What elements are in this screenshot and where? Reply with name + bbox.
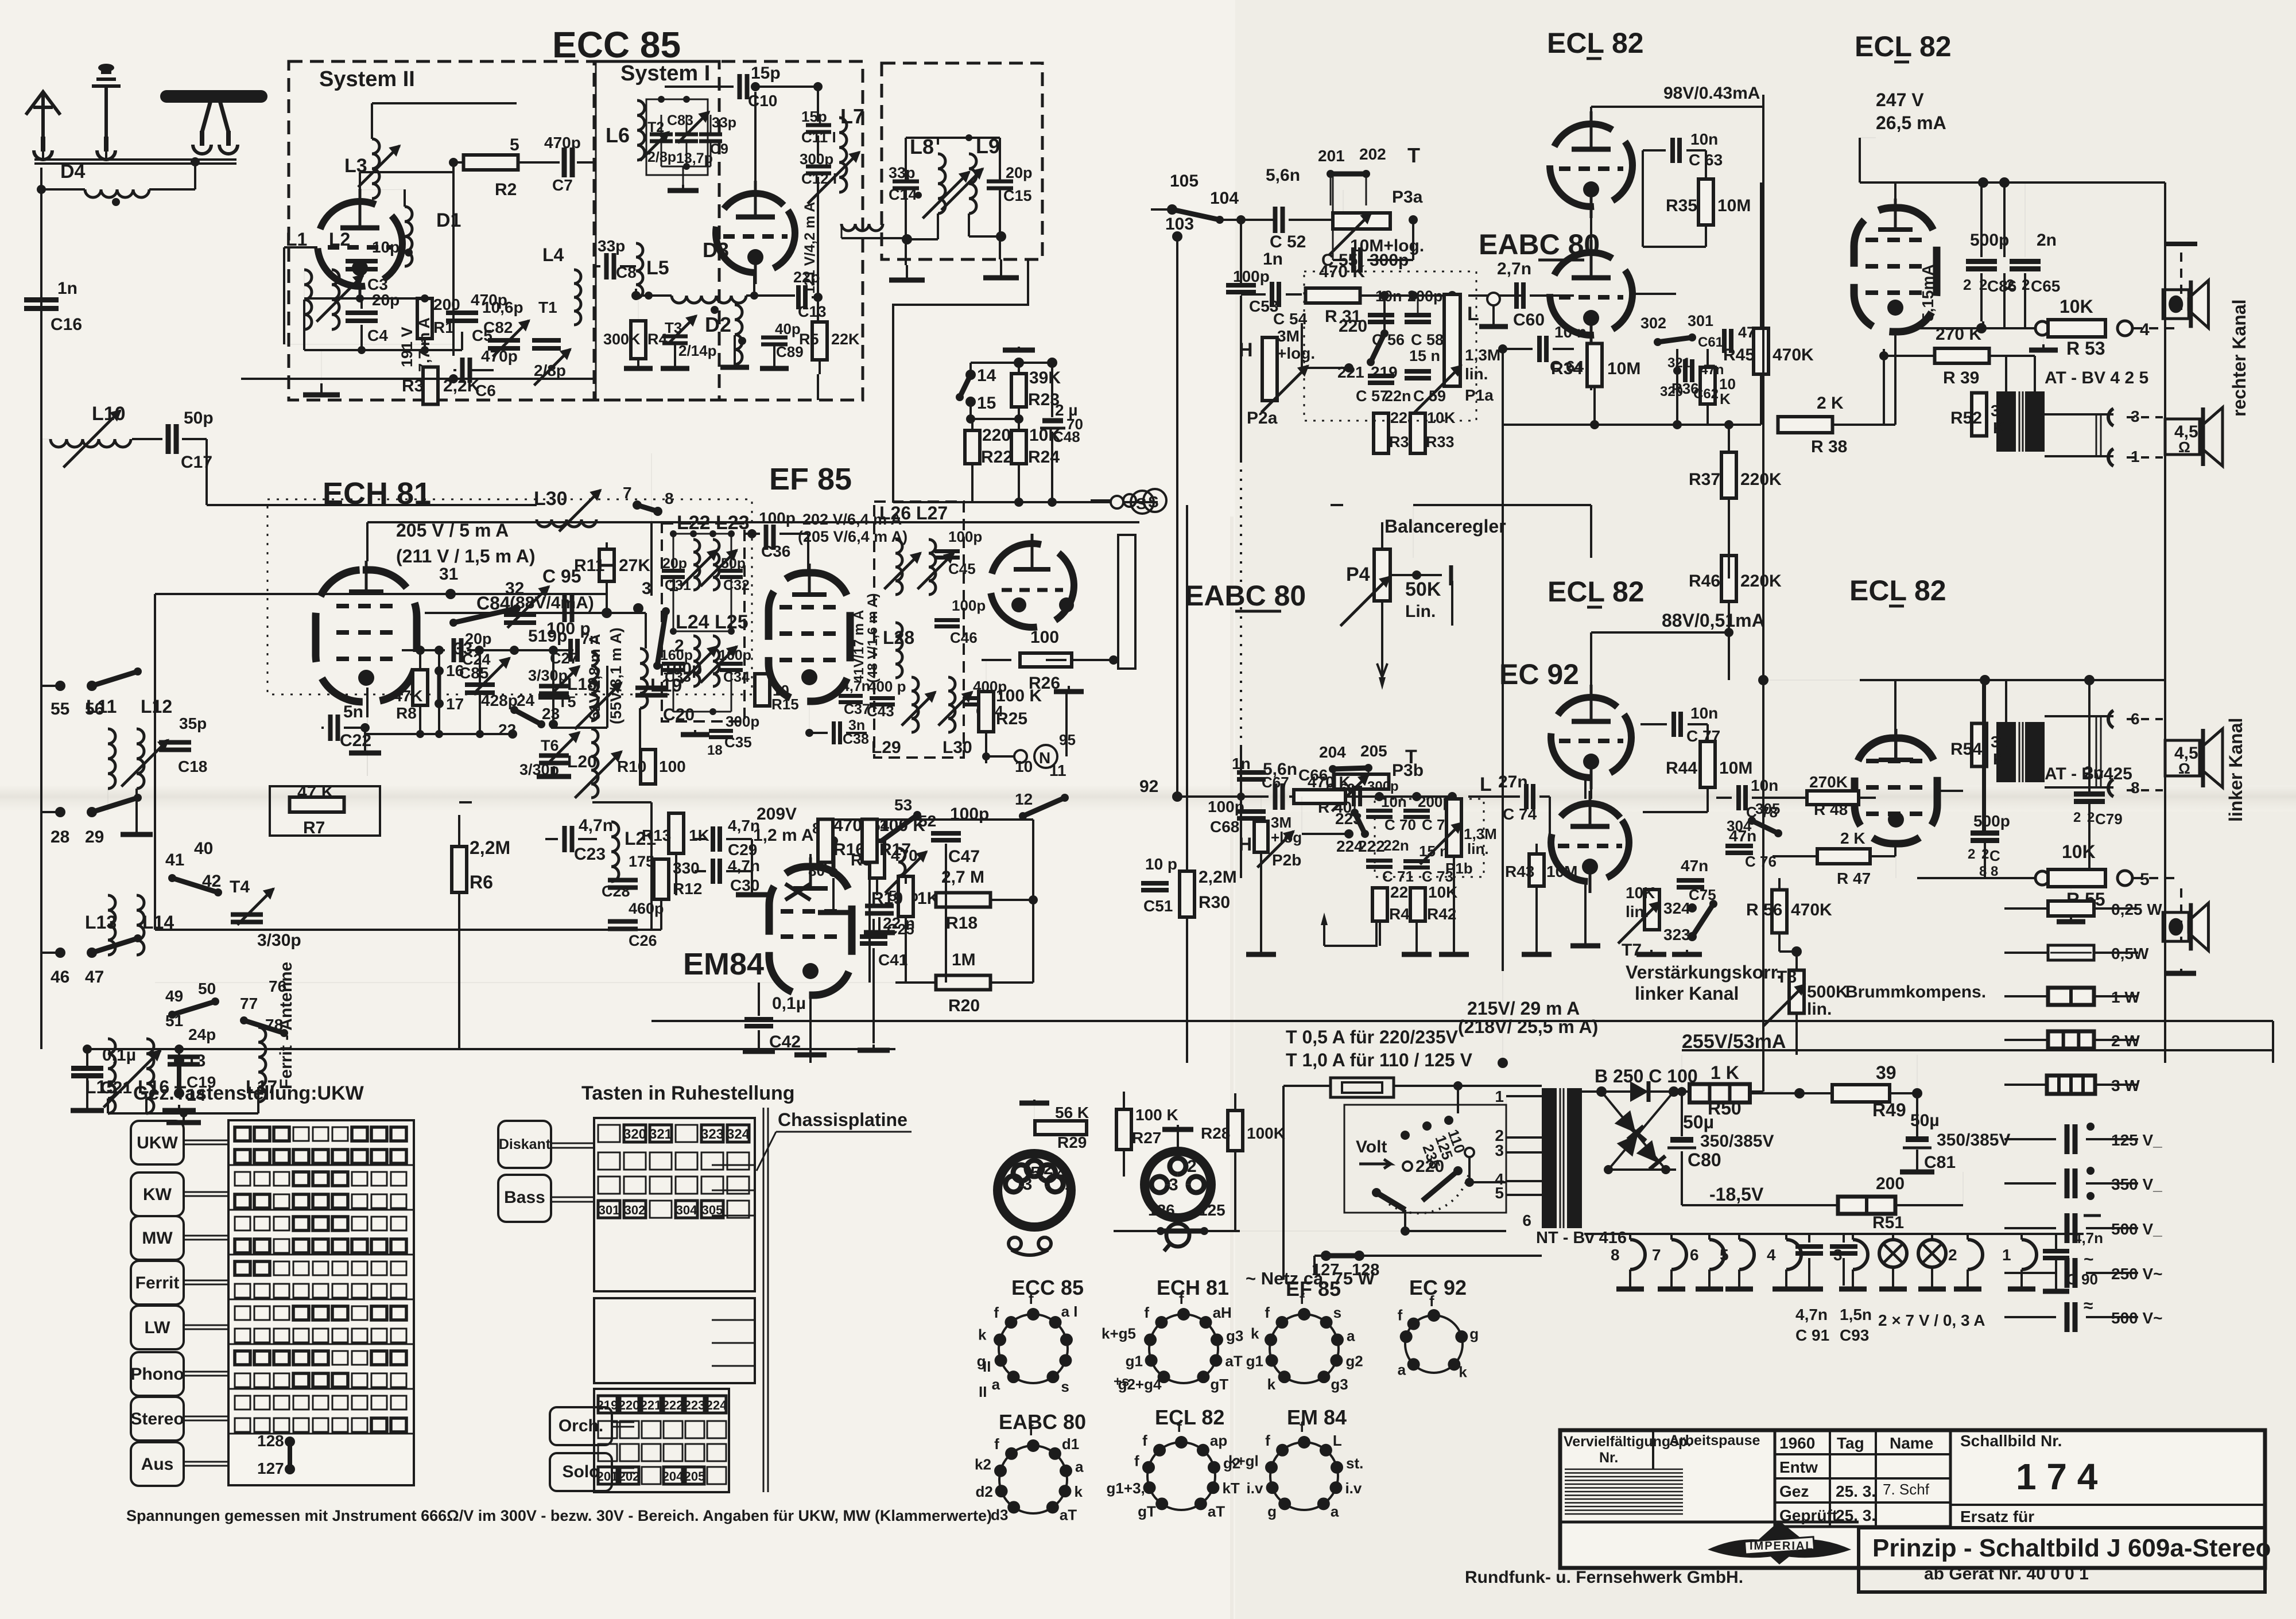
wire row y880 [205, 439, 208, 505]
svg-text:R49: R49 [1872, 1100, 1906, 1120]
coil L7 [839, 118, 847, 192]
svg-text:3M: 3M [1277, 327, 1300, 345]
svg-text:R51: R51 [1872, 1213, 1904, 1232]
capacitor C75 47n [1677, 878, 1704, 883]
wire button Aus [184, 1461, 228, 1463]
pot T7 10K lin [1645, 890, 1659, 930]
svg-text:Phono: Phono [130, 1365, 184, 1384]
button Stereo [131, 1397, 184, 1441]
svg-text:R22: R22 [981, 448, 1013, 467]
legend resistor 1W [2004, 995, 2048, 997]
svg-text:470p: 470p [481, 347, 518, 365]
resistor R7 47K [290, 797, 344, 812]
tape recorder symbol [1009, 1237, 1051, 1250]
capacitor C72 200p [1403, 809, 1430, 813]
dashed tweeter lower [2133, 877, 2175, 879]
dashed box System I [594, 61, 863, 400]
svg-text:D3: D3 [703, 238, 729, 262]
switch 13 14 [174, 1055, 184, 1066]
svg-text:(218V/ 25,5 m A): (218V/ 25,5 m A) [1458, 1016, 1598, 1037]
svg-text:50K: 50K [1405, 579, 1441, 600]
svg-text:C31: C31 [665, 577, 691, 593]
svg-text:k: k [1074, 1483, 1083, 1500]
svg-text:500 V~: 500 V~ [2111, 1309, 2163, 1327]
resistor R16 470K [818, 820, 833, 863]
resistor R32 22K [1374, 413, 1389, 453]
svg-text:300K: 300K [603, 331, 641, 348]
terminal circle [1487, 293, 1500, 305]
wire lattice right page [1187, 95, 2025, 1063]
svg-text:f: f [1134, 1453, 1139, 1470]
switch 46 47 [55, 948, 65, 958]
svg-text:C82: C82 [483, 319, 513, 336]
coil D1 [405, 207, 412, 266]
svg-text:KW: KW [143, 1185, 172, 1204]
coil L12 [137, 729, 144, 789]
wire L8 box drop [893, 259, 1028, 502]
capacitor C77 10n [1671, 712, 1676, 737]
capacitor C17 50p [166, 424, 171, 454]
svg-text:3/30p: 3/30p [528, 667, 568, 684]
wire 247V bus [1860, 181, 2165, 184]
svg-text:2: 2 [1948, 1246, 1957, 1264]
svg-text:EC 92: EC 92 [1409, 1276, 1467, 1299]
svg-text:R 47: R 47 [1837, 869, 1871, 887]
resistor R17 100K [862, 820, 877, 863]
svg-text:301: 301 [599, 1203, 620, 1217]
svg-text:aT: aT [1208, 1502, 1225, 1520]
svg-text:(205 V/6,4 m A): (205 V/6,4 m A) [798, 528, 907, 545]
wire button LW [184, 1325, 228, 1326]
capacitor C44 400p [963, 696, 988, 700]
svg-text:250 V~: 250 V~ [2111, 1265, 2163, 1283]
svg-text:C81: C81 [1924, 1153, 1956, 1172]
capacitor C24 20p [452, 638, 456, 662]
capacitor C7 [562, 147, 567, 177]
capacitor C69 300p [1352, 786, 1356, 806]
svg-text:a: a [1347, 1327, 1355, 1344]
svg-text:f: f [1177, 1418, 1182, 1435]
coil L5 [636, 243, 643, 298]
svg-text:C83: C83 [667, 112, 693, 129]
capacitor C14 33p [893, 180, 919, 184]
svg-text:7. Schf: 7. Schf [1883, 1481, 1930, 1498]
wire L11 bottom [107, 789, 108, 812]
svg-text:2,7 M: 2,7 M [941, 868, 984, 887]
wire upper mid horizontal y740 [1502, 424, 1504, 426]
svg-text:219: 219 [597, 1398, 618, 1412]
resistor R18 2.7M [936, 893, 991, 907]
legend resistor 0.25W [2004, 907, 2048, 910]
coil L29 [912, 677, 918, 732]
svg-text:222: 222 [1358, 837, 1385, 855]
svg-text:53: 53 [894, 796, 912, 814]
svg-text:P3a: P3a [1392, 188, 1423, 207]
coil L9 [969, 154, 976, 213]
capacitor C61 47n [1722, 329, 1727, 353]
wire button Ferrit [184, 1280, 228, 1282]
capacitor C11 15p [806, 123, 831, 127]
legend resistor 2W [2004, 1039, 2048, 1041]
wire button Phono [184, 1371, 228, 1373]
keyboard matrix frame [228, 1120, 414, 1485]
wire mid vertical rails [1762, 95, 1764, 1092]
svg-text:T: T [1407, 143, 1420, 167]
svg-text:aT: aT [1225, 1353, 1242, 1370]
svg-text:UKW: UKW [137, 1133, 178, 1152]
svg-text:L: L [1333, 1432, 1342, 1449]
svg-text:T 1,0 A für 110 / 125 V: T 1,0 A für 110 / 125 V [1286, 1050, 1473, 1070]
svg-text:20p: 20p [662, 556, 687, 572]
svg-text:Balanceregler: Balanceregler [1384, 516, 1506, 537]
capacitor C81 50u [1906, 1136, 1929, 1142]
button Orch [550, 1407, 612, 1445]
svg-text:2: 2 [1968, 847, 1975, 862]
resistor R31 470K [1306, 288, 1360, 303]
wire cathode net [359, 286, 361, 298]
svg-text:ECL 82: ECL 82 [1849, 574, 1946, 607]
svg-text:22n: 22n [1383, 837, 1409, 854]
legend capacitor 500V [2004, 1227, 2056, 1229]
capacitor C89 40p [761, 336, 788, 340]
svg-text:47n: 47n [1681, 857, 1708, 875]
svg-text:EM 84: EM 84 [1287, 1406, 1347, 1429]
svg-text:2,7n: 2,7n [1497, 259, 1531, 278]
wire L6 tank [646, 99, 708, 175]
svg-text:Brummkompens.: Brummkompens. [1845, 983, 1986, 1001]
capacitor C5 [446, 310, 478, 315]
wire right edge verticals [2272, 1021, 2274, 1063]
trimmer C83 [675, 133, 698, 137]
tone keyboard box 3 [594, 1389, 729, 1492]
svg-text:18: 18 [707, 743, 723, 758]
resistor R33 10K [1410, 413, 1425, 453]
svg-text:P2b: P2b [1272, 851, 1301, 869]
svg-text:4,7n: 4,7n [2073, 1229, 2103, 1247]
svg-text:Ferrit - Antenne: Ferrit - Antenne [277, 962, 296, 1089]
DIN connector 3pin [1145, 1151, 1215, 1218]
resistor R42 10K [1410, 888, 1425, 921]
svg-text:C37: C37 [844, 701, 870, 717]
svg-text:MW: MW [142, 1229, 173, 1248]
svg-text:R17: R17 [879, 840, 911, 859]
svg-text:10n: 10n [1375, 288, 1402, 305]
capacitor C88 500p [1971, 830, 1999, 836]
svg-text:L24 L25: L24 L25 [676, 611, 748, 633]
coil L27 [929, 539, 936, 595]
svg-text:Ω: Ω [2178, 438, 2190, 456]
long vertical x3772 [2164, 183, 2166, 1063]
svg-text:500 V_: 500 V_ [2111, 1220, 2162, 1238]
svg-text:2 W: 2 W [2111, 1032, 2140, 1050]
bridge diode ll [1617, 1128, 1646, 1157]
voltage selector box [1344, 1105, 1506, 1213]
ground antenna symbol [92, 72, 121, 146]
tweeter speaker lower [2163, 903, 2208, 951]
svg-text:C43: C43 [867, 702, 894, 720]
wire ECH81 out row [402, 649, 445, 651]
wire bottom rail y1712 [155, 982, 936, 983]
svg-text:209V: 209V [757, 805, 797, 824]
wire speaker row right [1920, 327, 2042, 329]
svg-text:300p: 300p [800, 150, 833, 168]
svg-text:C47: C47 [948, 847, 980, 866]
capacitor C32 50p [720, 569, 743, 573]
tone key row 320 321 323 324 [598, 1125, 620, 1142]
resistor R29 56K [1035, 1121, 1087, 1135]
resistor R9 470 [870, 841, 885, 878]
svg-text:200: 200 [1876, 1174, 1905, 1193]
wire D4 row [41, 188, 85, 191]
wire R23 row [971, 362, 1052, 364]
svg-text:g1+3,: g1+3, [1107, 1480, 1145, 1497]
svg-text:8: 8 [1611, 1246, 1620, 1264]
svg-text:160p: 160p [660, 647, 693, 663]
wire mid rail 22 [365, 733, 513, 735]
resistor pot P3a 10M+log [1333, 213, 1390, 229]
wire mains left [1282, 1086, 1285, 1280]
title block outer [1560, 1430, 2265, 1568]
tone keyboard box 1 [594, 1118, 755, 1291]
svg-text:s: s [1061, 1378, 1069, 1395]
svg-text:24: 24 [517, 692, 535, 709]
svg-text:302: 302 [625, 1203, 646, 1217]
svg-text:Volt: Volt [1356, 1137, 1387, 1156]
svg-text:10K: 10K [2062, 841, 2096, 862]
svg-text:Verstärkungskorr.: Verstärkungskorr. [1626, 962, 1782, 983]
heater bus [1584, 1233, 2084, 1235]
capacitor C62 47n [1683, 359, 1688, 382]
svg-text:ECC 85: ECC 85 [1011, 1276, 1084, 1299]
svg-text:a: a [1331, 1502, 1339, 1520]
svg-text:330: 330 [673, 859, 700, 877]
bridge diode ul [1615, 1111, 1644, 1140]
wire EF85 anode [807, 534, 809, 572]
divider ersatz [1950, 1504, 2265, 1506]
svg-text:100 K: 100 K [996, 686, 1042, 705]
wire lattice left page [41, 505, 1066, 1063]
capacitor C26 460p [608, 919, 638, 924]
svg-text:8: 8 [665, 490, 674, 507]
svg-text:R13: R13 [642, 826, 671, 844]
svg-text:100p: 100p [1233, 267, 1270, 285]
svg-text:100K: 100K [1247, 1124, 1285, 1142]
wire y1620 long [155, 929, 661, 931]
svg-text:k: k [978, 1326, 987, 1343]
svg-text:C9: C9 [710, 141, 728, 157]
svg-text:100: 100 [1030, 628, 1059, 647]
title big box [1859, 1528, 2265, 1592]
svg-text:NT - Bv 416: NT - Bv 416 [1536, 1229, 1627, 1247]
tube ECL82 output pentode right [1854, 199, 1937, 332]
svg-text:C 64: C 64 [1550, 358, 1584, 375]
imperial logo [1708, 1522, 1851, 1563]
tube ECH81 [316, 561, 417, 702]
ground tweeter [2165, 242, 2197, 246]
resistor R22 220K [965, 430, 980, 464]
terminal S2 [1111, 496, 1123, 508]
svg-text:88V/0,51mA: 88V/0,51mA [1662, 610, 1765, 631]
svg-text:C75: C75 [1689, 886, 1716, 903]
svg-text:Ferrit: Ferrit [135, 1274, 180, 1292]
bus 215V vertical links [1186, 1062, 1188, 1064]
coil D4 [85, 189, 149, 197]
resistor R1 [417, 298, 432, 339]
svg-text:4,7n: 4,7n [579, 816, 613, 835]
svg-text:39: 39 [1876, 1062, 1896, 1083]
coil L22 [693, 539, 700, 590]
capacitor C43 400p [870, 696, 895, 700]
svg-text:f: f [1179, 1290, 1184, 1307]
coil L17 ferrite [258, 1027, 266, 1102]
ground R23 top [1018, 347, 1020, 350]
svg-text:rechter Kanal: rechter Kanal [2229, 299, 2250, 417]
trimmer T4 3/30p [231, 913, 263, 917]
svg-text:2 K: 2 K [1840, 829, 1865, 847]
svg-text:ECH 81: ECH 81 [1157, 1276, 1229, 1299]
svg-text:50p: 50p [721, 556, 746, 572]
svg-text:C65: C65 [2031, 277, 2060, 295]
svg-text:L19: L19 [650, 675, 682, 696]
ground L8 [906, 265, 908, 280]
svg-text:R10: R10 [617, 758, 646, 775]
selector wires [1457, 1086, 1459, 1113]
svg-text:220K: 220K [1740, 572, 1782, 591]
svg-text:15p: 15p [751, 64, 781, 83]
svg-text:47n: 47n [1700, 362, 1724, 378]
svg-text:C61: C61 [1698, 335, 1723, 350]
capacitor C64 10n [1537, 336, 1542, 362]
svg-text:R27: R27 [1132, 1129, 1161, 1147]
svg-text:10n: 10n [1381, 793, 1407, 810]
svg-text:220: 220 [619, 1398, 640, 1412]
svg-text:Prinzip - Schaltbild J 609a-S: Prinzip - Schaltbild J 609a-Stereo [1872, 1534, 2271, 1562]
svg-text:L11: L11 [86, 696, 117, 717]
svg-text:II: II [983, 1358, 991, 1375]
ground T6 [553, 766, 555, 777]
svg-text:g: g [1469, 1325, 1479, 1342]
wire R5 column [817, 87, 819, 122]
ground near R26 [1068, 686, 1070, 692]
svg-text:20p: 20p [465, 630, 492, 647]
coil L16 [146, 1039, 154, 1113]
svg-text:200p: 200p [1407, 288, 1443, 305]
svg-text:C30: C30 [730, 876, 759, 894]
capacitor C90 4.7n [2043, 1249, 2069, 1253]
svg-text:1 7 4: 1 7 4 [2016, 1456, 2098, 1497]
svg-text:R 53: R 53 [2066, 338, 2105, 359]
svg-text:R37: R37 [1689, 470, 1720, 489]
coil L28 [895, 623, 902, 678]
svg-text:k: k [1251, 1325, 1259, 1342]
svg-text:202: 202 [619, 1469, 640, 1484]
svg-text:ECC 85: ECC 85 [552, 24, 681, 65]
wire grid left [284, 246, 317, 249]
svg-text:10M: 10M [1717, 196, 1751, 215]
capacitor C25 50p [865, 904, 894, 908]
svg-text:f: f [1300, 1418, 1305, 1435]
svg-text:Ersatz für: Ersatz für [1960, 1508, 2034, 1525]
svg-text:1n: 1n [1263, 250, 1283, 269]
svg-text:L3: L3 [344, 155, 367, 177]
grounds EM84 area [809, 1049, 812, 1055]
heater taps [1630, 1240, 1645, 1269]
resistor R3 [423, 367, 438, 405]
svg-text:300p: 300p [726, 713, 759, 730]
capacitor C51 10p [1141, 881, 1169, 886]
svg-text:7,7 m A: 7,7 m A [416, 317, 433, 372]
svg-text:L4: L4 [542, 244, 564, 265]
pot P4 50K [1374, 549, 1390, 601]
svg-text:304: 304 [676, 1203, 697, 1217]
wire antenna feed [34, 158, 236, 161]
svg-text:C68: C68 [1210, 818, 1239, 836]
tube ECH81 lower leads [366, 688, 369, 717]
grounds lower tone [1260, 950, 1262, 954]
svg-text:K: K [1993, 419, 2004, 437]
svg-text:EABC 80: EABC 80 [999, 1410, 1086, 1434]
svg-text:f: f [1142, 1432, 1147, 1449]
svg-text:System I: System I [620, 61, 710, 86]
svg-text:L: L [1480, 774, 1492, 795]
svg-text:P2a: P2a [1247, 409, 1278, 428]
svg-text:5,15mA: 5,15mA [1919, 264, 1937, 321]
resistor R39 270K actual [1935, 348, 1989, 363]
svg-text:1 K: 1 K [1711, 1062, 1739, 1083]
svg-text:47: 47 [85, 968, 104, 987]
svg-text:R52: R52 [1950, 409, 1982, 428]
svg-text:s: s [1333, 1304, 1341, 1321]
resistor R41 22K [1372, 888, 1387, 921]
svg-text:C35: C35 [724, 733, 752, 751]
svg-text:C15: C15 [1003, 187, 1032, 204]
resistor R45 470K [1754, 328, 1768, 374]
svg-text:f: f [994, 1304, 999, 1321]
svg-text:220: 220 [1339, 317, 1367, 336]
svg-text:470 K: 470 K [1308, 773, 1351, 791]
svg-text:2: 2 [2073, 810, 2081, 825]
coil L18 [591, 652, 598, 721]
wires IF1 [673, 533, 731, 535]
svg-text:302: 302 [1640, 315, 1666, 332]
svg-text:C 52: C 52 [1270, 232, 1306, 251]
ground R12 [751, 887, 753, 895]
capacitor C12 300p [806, 165, 831, 169]
svg-text:24p: 24p [188, 1026, 216, 1043]
wire EC92 anode fix [1589, 778, 1591, 802]
coil L7b [841, 224, 883, 231]
svg-text:g3: g3 [1226, 1327, 1243, 1344]
svg-text:R16: R16 [833, 840, 865, 859]
svg-text:323: 323 [701, 1127, 724, 1142]
wire eabc outputs right [1574, 150, 1643, 581]
svg-text:13: 13 [187, 1051, 205, 1070]
svg-text:EF 85: EF 85 [1286, 1277, 1341, 1300]
selector levers [1376, 1193, 1405, 1210]
svg-text:P4: P4 [1346, 564, 1370, 585]
svg-text:103: 103 [1165, 215, 1194, 234]
resistor R44 10M [1700, 741, 1715, 787]
switch contacts 3 1 2 [633, 603, 643, 614]
capacitor C37 4.7n [839, 694, 863, 698]
svg-text:C45: C45 [948, 560, 976, 577]
svg-text:324: 324 [1663, 899, 1690, 917]
svg-text:323: 323 [1663, 926, 1690, 944]
resistor R43 10M [1529, 854, 1544, 886]
svg-text:320: 320 [1660, 384, 1683, 399]
svg-text:10n: 10n [1690, 130, 1718, 148]
pot P3a track [1339, 215, 1348, 224]
